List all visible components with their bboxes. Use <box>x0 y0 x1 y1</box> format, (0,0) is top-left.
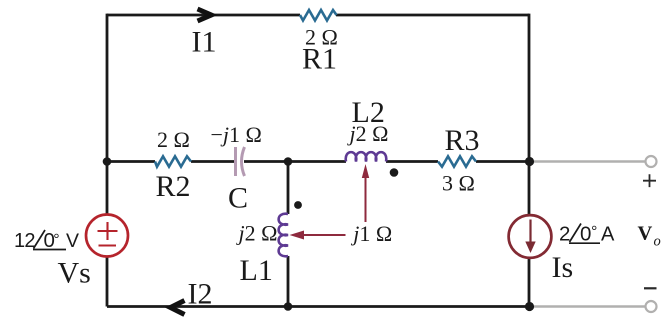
svg-text:C: C <box>228 181 248 214</box>
svg-text:0: 0 <box>580 223 591 246</box>
mutual inductance arrow horizontal <box>302 234 346 236</box>
current arrow I1 <box>198 9 212 21</box>
svg-text:o: o <box>654 234 661 250</box>
svg-text:Vs: Vs <box>58 257 91 290</box>
svg-text:L1: L1 <box>240 254 273 287</box>
svg-text:°: ° <box>591 224 597 241</box>
svg-text:3 Ω: 3 Ω <box>442 171 475 196</box>
node dot center-middle <box>284 157 293 166</box>
svg-text:12: 12 <box>14 230 35 252</box>
svg-text:2: 2 <box>559 223 570 246</box>
output + label <box>643 174 656 187</box>
node dot right-bottom <box>525 302 534 311</box>
svg-text:A: A <box>601 224 615 246</box>
wire output bottom (gray) <box>531 305 646 308</box>
svg-text:Is: Is <box>552 251 574 284</box>
wire middle horizontal <box>107 160 529 163</box>
svg-text:j2 Ω: j2 Ω <box>347 121 389 146</box>
svg-text:R3: R3 <box>445 124 480 157</box>
svg-text:j1 Ω: j1 Ω <box>350 221 392 246</box>
svg-text:2 Ω: 2 Ω <box>157 127 190 152</box>
capacitor C <box>236 147 245 176</box>
inductor L1 <box>279 214 288 257</box>
wire top horizontal <box>107 14 529 17</box>
svg-text:V: V <box>66 230 79 252</box>
current source Is <box>509 215 552 258</box>
svg-text:I1: I1 <box>192 26 217 59</box>
wire left vertical <box>106 14 109 307</box>
wire output top (gray) <box>531 160 646 163</box>
current arrow I2 <box>171 301 185 315</box>
coupling dot L1 <box>294 201 302 209</box>
svg-text:R1: R1 <box>302 43 337 76</box>
wire bottom horizontal <box>107 305 529 308</box>
label 12 angle 0 V <box>14 229 79 252</box>
svg-text:V: V <box>638 223 653 245</box>
svg-text:I2: I2 <box>188 278 213 311</box>
voltage source Vs <box>86 215 128 257</box>
svg-text:j2 Ω: j2 Ω <box>236 221 278 246</box>
resistor R3 <box>438 156 476 166</box>
mutual inductance arrow vertical <box>365 177 367 222</box>
terminal bottom circle <box>646 301 657 312</box>
svg-text:°: ° <box>53 232 59 249</box>
resistor R2 <box>155 156 191 166</box>
node dot right-middle <box>525 157 534 166</box>
wire right vertical <box>528 14 531 307</box>
node dot left-middle <box>103 157 112 166</box>
coupling dot L2 <box>390 168 399 177</box>
svg-text:−j1 Ω: −j1 Ω <box>211 122 262 147</box>
label 2 angle 0 A <box>559 223 615 246</box>
node dot center-bottom <box>284 302 293 311</box>
inductor L2 <box>346 152 387 161</box>
wire middle vertical branch <box>287 162 290 307</box>
svg-text:R2: R2 <box>156 170 191 203</box>
resistor R1 <box>300 10 337 21</box>
terminal top circle <box>646 156 657 167</box>
output minus label <box>644 287 657 289</box>
